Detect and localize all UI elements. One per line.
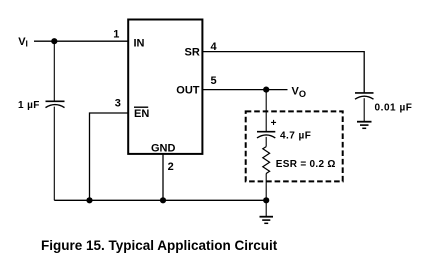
wire OUT pin to VO	[202, 89, 287, 91]
wire VI to IN pin	[34, 40, 128, 42]
svg-text:+: +	[271, 118, 277, 129]
svg-text:GND: GND	[151, 143, 176, 155]
node junction output	[263, 87, 269, 93]
wire C2 to ground	[363, 98, 365, 121]
svg-text:ESR = 0.2 Ω: ESR = 0.2 Ω	[276, 159, 336, 170]
wire output node down to C3	[265, 90, 267, 132]
wire EN pin to left and down	[90, 113, 129, 200]
svg-text:VO: VO	[292, 86, 307, 99]
op-amp/regulator IC U1 body	[128, 20, 202, 154]
EN overbar	[134, 106, 148, 108]
wire SR pin to C2	[202, 52, 364, 93]
dashed box around output capacitor model	[246, 111, 343, 181]
capacitor C2 0.01uF	[355, 93, 374, 99]
svg-text:4.7 µF: 4.7 µF	[280, 130, 311, 141]
wire GND pin 2 down to rail	[162, 154, 164, 200]
capacitor C1 1uF	[46, 101, 65, 107]
node junction rail right end	[263, 197, 269, 203]
ground symbol bottom	[260, 217, 274, 224]
wire C3 to resistor ESR	[265, 137, 267, 147]
svg-text:2: 2	[168, 161, 174, 173]
svg-text:OUT: OUT	[176, 85, 200, 97]
svg-text:Figure 15. Typical Application: Figure 15. Typical Application Circuit	[41, 238, 278, 253]
svg-text:IN: IN	[134, 37, 145, 49]
svg-text:EN: EN	[134, 108, 149, 120]
ground rail wire	[54, 199, 266, 201]
wire resistor down to rail node	[265, 173, 267, 216]
ground symbol right	[357, 122, 372, 129]
capacitor C3 4.7uF polarized	[257, 132, 275, 138]
svg-text:SR: SR	[185, 47, 200, 59]
wire input node down to C1	[53, 41, 55, 101]
resistor ESR zigzag	[263, 147, 270, 174]
node junction on input wire	[51, 38, 57, 44]
node junction EN branch on rail	[86, 197, 92, 203]
svg-text:1 µF: 1 µF	[18, 100, 40, 111]
svg-text:0.01 µF: 0.01 µF	[375, 102, 413, 113]
svg-text:VI: VI	[18, 36, 28, 49]
svg-text:3: 3	[115, 98, 121, 110]
svg-text:5: 5	[211, 75, 217, 87]
node junction GND pin on rail	[160, 197, 166, 203]
svg-text:1: 1	[113, 28, 119, 40]
wire C1 down to ground rail	[53, 107, 55, 201]
